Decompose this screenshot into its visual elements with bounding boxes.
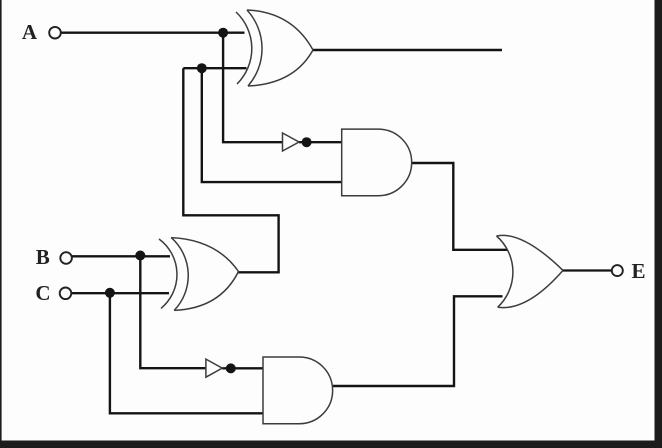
wire NOT1 output to AND1 — [299, 141, 342, 143]
wire vertical from node to AND1 lower input — [202, 68, 342, 182]
junction dot on XOR1 second input — [197, 63, 207, 73]
AND gate 1 — [342, 129, 412, 196]
XOR gate bottom body — [171, 238, 238, 311]
wire C input horizontal — [71, 292, 169, 294]
XOR gate bottom detached input arc — [159, 239, 177, 308]
NOT gate 2 (inverter triangle) — [206, 359, 222, 377]
output terminal E — [612, 265, 623, 276]
wire XOR1 output horizontal — [312, 49, 502, 51]
wire B branch down to NOT2 — [140, 256, 206, 369]
wire OR output to terminal E — [561, 269, 612, 271]
NOT gate 2 output bubble/junction dot — [226, 363, 236, 373]
svg-text:A: A — [22, 20, 38, 44]
XOR gate top detached input arc — [236, 12, 252, 84]
NOT gate 1 (inverter triangle) — [283, 133, 300, 151]
junction dot on A wire — [218, 28, 228, 38]
svg-text:C: C — [35, 281, 50, 305]
junction dot on B wire — [135, 251, 145, 261]
wire AND1 output down to OR top input — [412, 163, 508, 250]
input terminal A — [49, 27, 61, 39]
svg-text:E: E — [631, 259, 645, 283]
AND gate 2 — [263, 357, 333, 424]
input terminal B — [60, 252, 72, 264]
junction dot on C wire — [105, 288, 115, 298]
input terminal C — [60, 288, 72, 300]
wire vertical branch of A down to NOT input — [223, 33, 282, 143]
OR gate — [497, 235, 564, 307]
wire A input horizontal — [61, 32, 245, 34]
svg-text:B: B — [36, 245, 50, 269]
XOR gate top body — [247, 10, 313, 86]
wire XOR2 output feedback: right, up, left, up — [183, 68, 278, 272]
wire XOR1 second input horizontal — [183, 67, 246, 69]
NOT gate 1 output bubble/junction dot — [302, 137, 312, 147]
wire B input horizontal — [72, 255, 170, 257]
wire C branch down to AND2 lower input — [110, 293, 263, 414]
wire NOT2 output to AND2 — [222, 367, 263, 369]
wire AND2 output up to OR bottom input — [333, 296, 503, 386]
